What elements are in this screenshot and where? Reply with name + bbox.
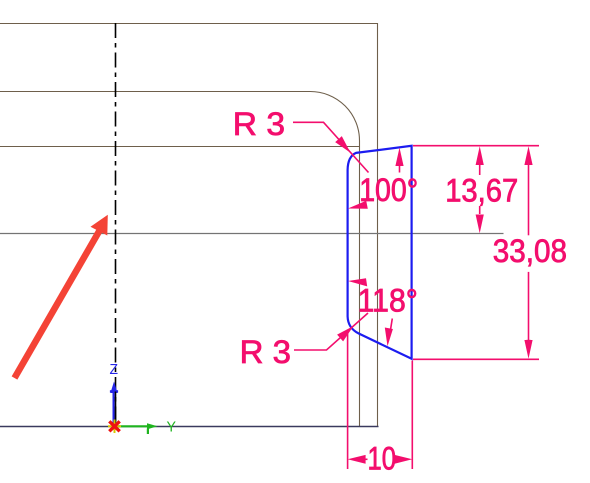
- svg-text:118°: 118°: [358, 283, 418, 319]
- big red annotation arrow: [15, 215, 108, 378]
- dimension 13,67 vertical line + arrows: [476, 146, 484, 233]
- dimension 10 arrows: [348, 455, 413, 464]
- coordinate triad: Y axis (green): [115, 423, 158, 434]
- dimension 33,08 vertical line + arrows: [524, 146, 532, 359]
- dimension 13,67 / 33,08 top extension line: [413, 145, 539, 147]
- svg-text:R 3: R 3: [240, 334, 291, 370]
- node vertical centerline (dash-dot): [115, 23, 117, 426]
- svg-text:Y: Y: [167, 419, 177, 436]
- coordinate triad: Z axis (blue): [110, 382, 118, 427]
- angle dimension 100°: [348, 148, 404, 209]
- svg-text:13,67: 13,67: [445, 172, 518, 208]
- wire top horizontal edge + right vertical edge (part outline): [0, 24, 378, 427]
- coordinate triad: X origin marker (red cross with yellow star): [108, 420, 121, 434]
- dimension 13,67 / 33,08 bottom extension line: [413, 358, 539, 360]
- blue profile outline: [348, 146, 412, 359]
- dimension 10 extension lines: [347, 331, 349, 469]
- node centre axis line (gray): [0, 233, 504, 235]
- angle dimension 118°: [348, 278, 393, 346]
- svg-text:100°: 100°: [359, 172, 418, 208]
- svg-text:Z: Z: [110, 361, 119, 378]
- svg-text:R 3: R 3: [233, 106, 285, 142]
- node centerline final dash over Z axis: [115, 392, 117, 427]
- svg-text:33,08: 33,08: [493, 233, 567, 269]
- wire third horizontal edge: [0, 146, 360, 148]
- wire bottom dark part edge: [0, 426, 379, 428]
- svg-text:10: 10: [368, 440, 397, 476]
- wire second horizontal edge with corner arc into vertical edge: [0, 92, 360, 427]
